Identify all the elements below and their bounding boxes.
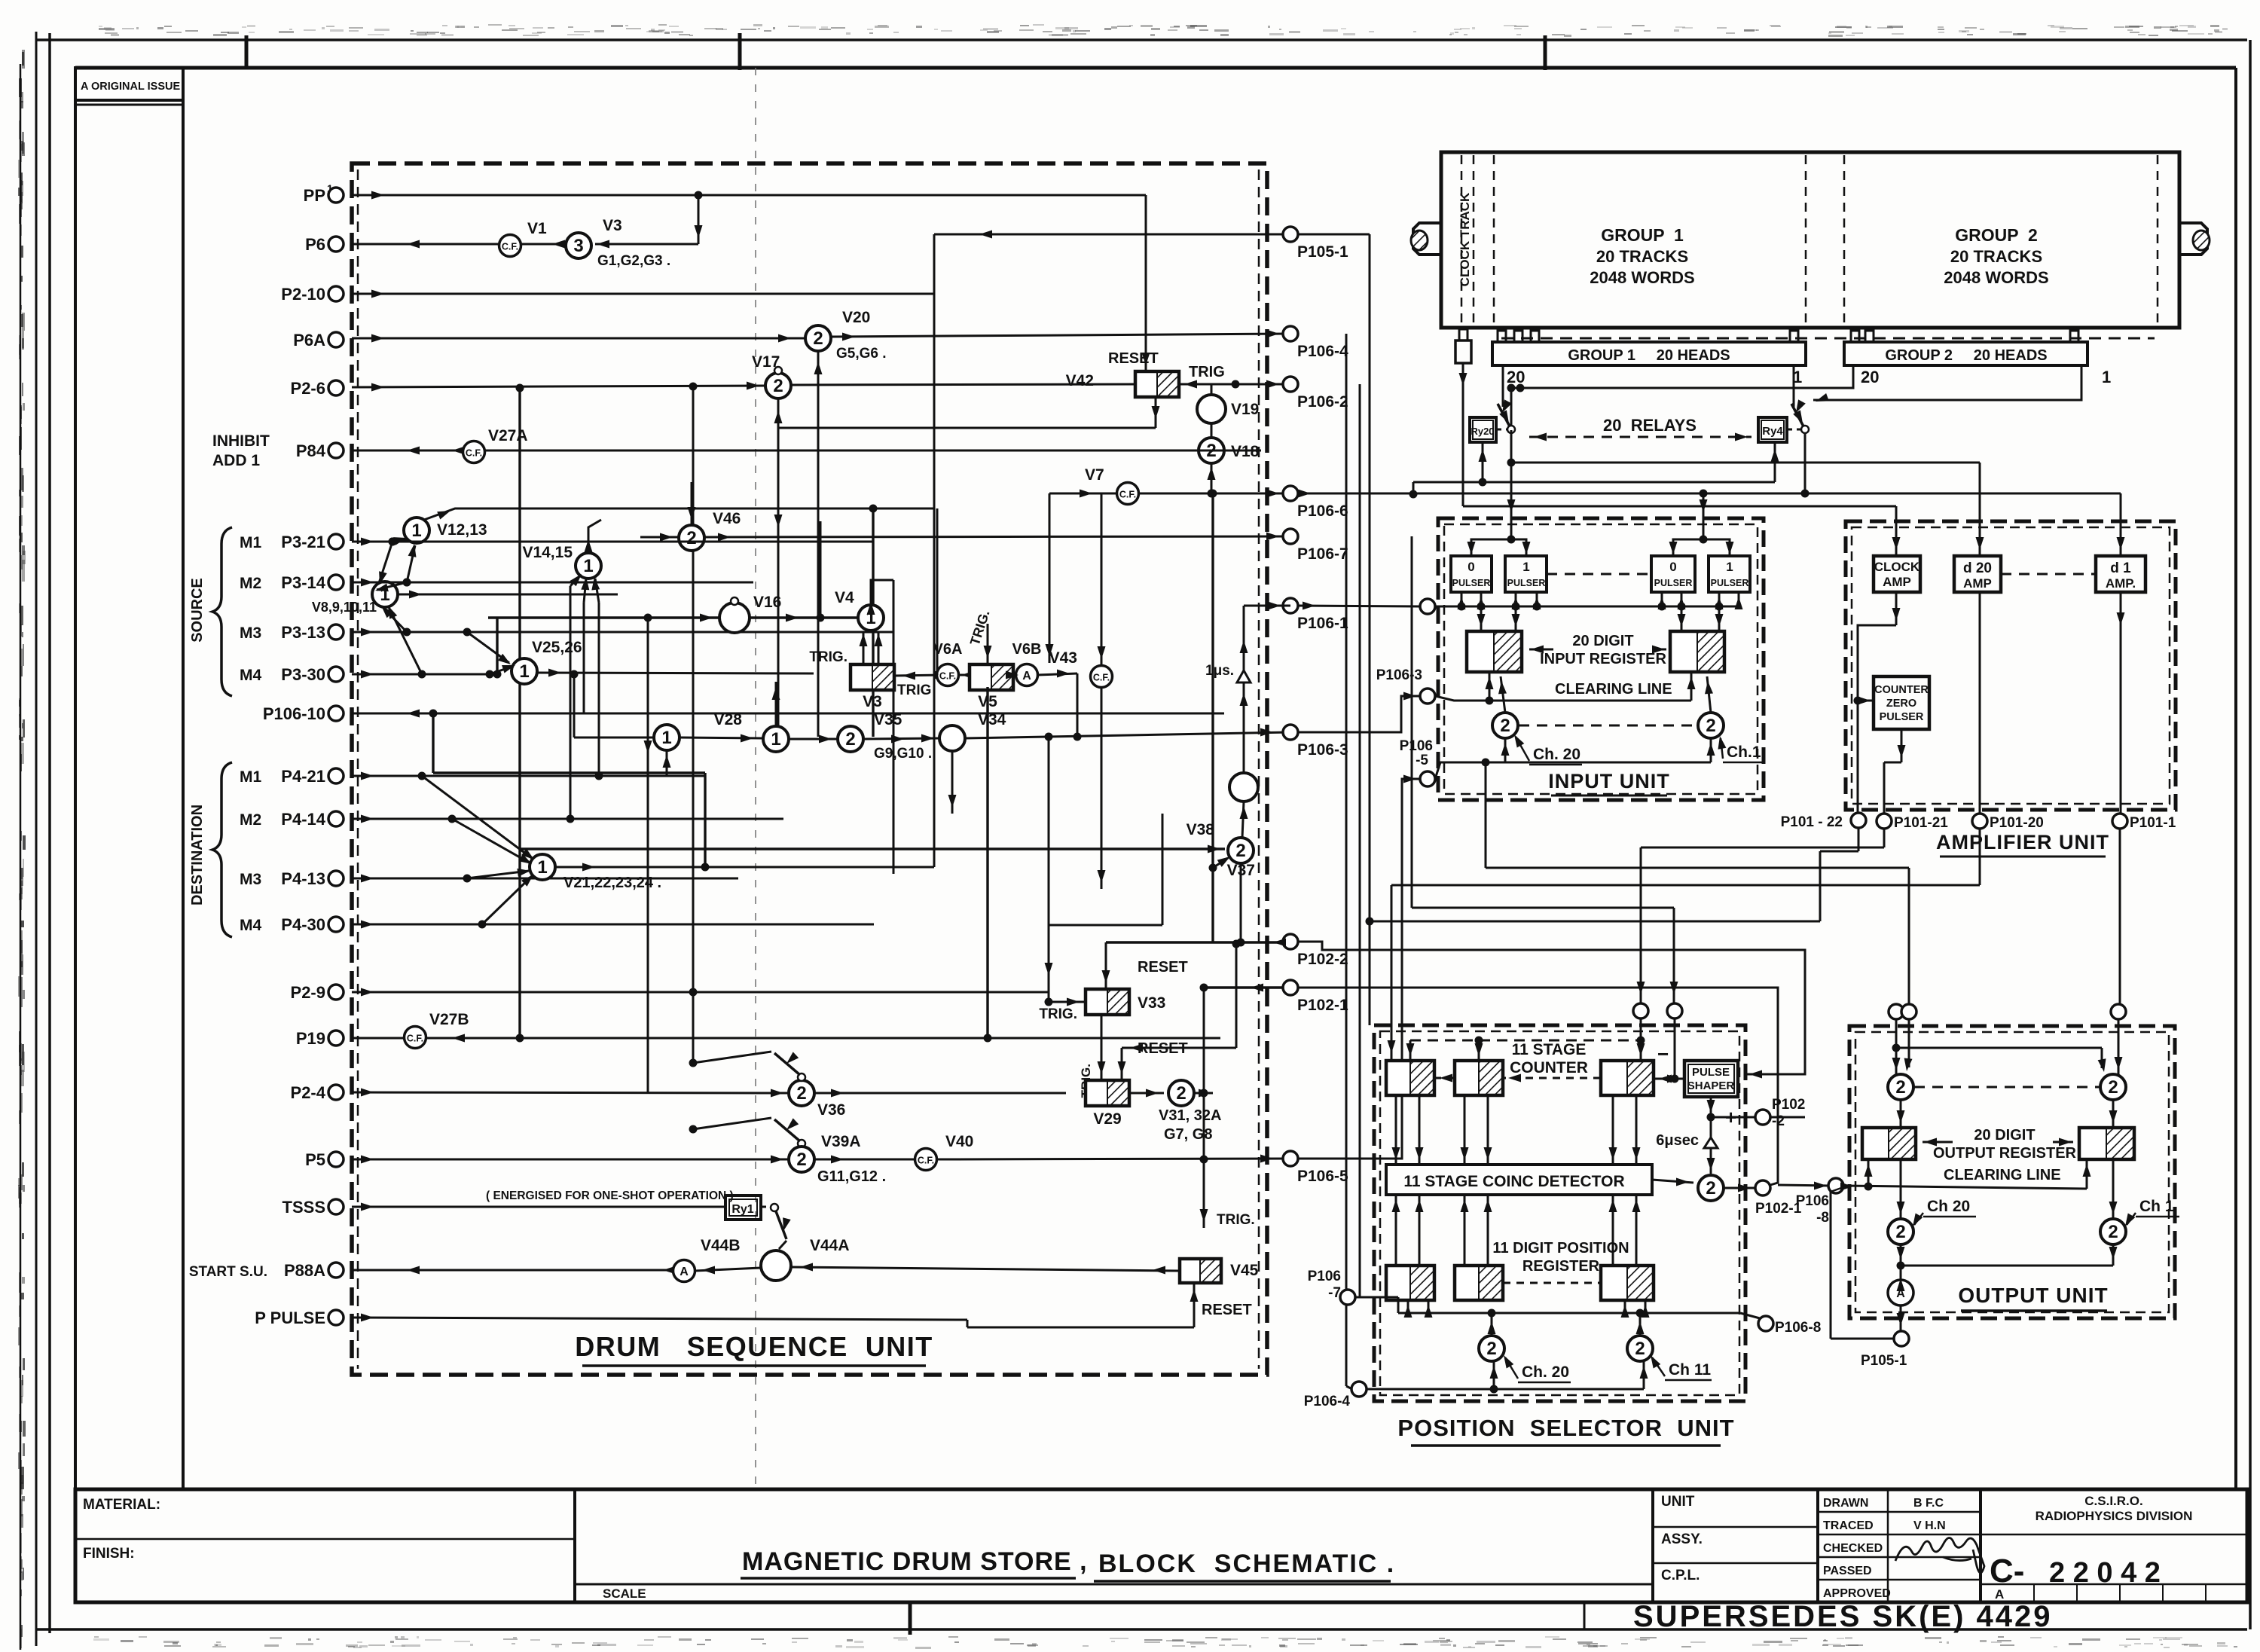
terminal P2-10 label [281, 285, 325, 304]
wire pulse shaper down [1707, 1097, 1737, 1128]
wire V46 out row P106-7 [704, 533, 1290, 542]
svg-text:20: 20 [1861, 368, 1879, 386]
wire pulser dashes [1547, 573, 1651, 576]
svg-text:2: 2 [1706, 1178, 1715, 1199]
wire P84 row [352, 447, 1261, 455]
delay 6usec triangle [1656, 1132, 1718, 1149]
wire counter chain dash a [1434, 1074, 1455, 1083]
source/dest channel label M1 y719 [240, 534, 261, 551]
label 20 g1 [1507, 368, 1525, 386]
wire PP row [352, 191, 1146, 200]
wire V6B out [1037, 670, 1077, 678]
wire d1 feed [2117, 493, 2125, 556]
switch relay2 lever [1791, 399, 1809, 433]
svg-text:V6B: V6B [1012, 641, 1042, 658]
svg-text:V29: V29 [1093, 1110, 1121, 1128]
svg-text:2048 WORDS: 2048 WORDS [1590, 268, 1694, 287]
wire V44B-V44A [695, 1266, 761, 1275]
svg-text:V35: V35 [874, 711, 902, 728]
label 11 stage counter [1510, 1041, 1588, 1076]
svg-text:Ch 11: Ch 11 [1669, 1361, 1711, 1379]
svg-text:PP: PP [304, 186, 325, 205]
drum right axle [2179, 223, 2210, 255]
wire P4-13 row [352, 875, 738, 883]
wire counter chain dash c [1654, 1075, 1684, 1083]
gate V12,13 (1) [404, 518, 487, 543]
svg-text:2: 2 [686, 528, 696, 548]
main title underline 2 [1094, 1580, 1391, 1583]
svg-text:V36: V36 [817, 1101, 845, 1119]
title passed label [1823, 1565, 1872, 1577]
svg-text:RADIOPHYSICS DIVISION: RADIOPHYSICS DIVISION [2036, 1509, 2193, 1523]
svg-text:P3-13: P3-13 [281, 623, 325, 642]
title finish label [83, 1546, 135, 1562]
terminal psu P106-4 [1304, 1382, 1367, 1409]
wire diag to V14 b [581, 577, 589, 603]
buffer V19 [1197, 395, 1259, 423]
gate V39A (2) [789, 1133, 886, 1185]
circle V44B [673, 1237, 741, 1282]
wire V33 to V29 [1079, 1015, 1106, 1098]
svg-text:COUNTER: COUNTER [1510, 1059, 1588, 1076]
svg-text:V38: V38 [1186, 821, 1215, 838]
svg-text:20 TRACKS: 20 TRACKS [1596, 247, 1688, 266]
wire V43 cf [1049, 649, 1113, 688]
svg-text:P2-4: P2-4 [291, 1083, 326, 1102]
svg-text:P102-2: P102-2 [1297, 951, 1348, 968]
wire counter feedback dash [1406, 1037, 1642, 1061]
svg-text:A ORIGINAL ISSUE: A ORIGINAL ISSUE [81, 81, 180, 93]
terminal P101-22 [1781, 813, 1866, 830]
svg-text:2: 2 [1235, 841, 1245, 861]
d20 amp box [1954, 556, 2001, 592]
wire x1089 riser [820, 521, 822, 618]
wire x762 riser [570, 670, 579, 738]
centering tick top 3 [1544, 35, 1547, 70]
wire reg feed arrows A [1477, 610, 1520, 631]
drum group2 text [1944, 225, 2048, 287]
svg-text:11 STAGE: 11 STAGE [1512, 1041, 1587, 1058]
terminal P84 circle [328, 443, 344, 458]
flipflop V33 [1039, 959, 1187, 1022]
svg-text:P3-21: P3-21 [281, 533, 325, 551]
inner frame top line [75, 66, 2236, 70]
ou top terminal 1 [1889, 1004, 1904, 1019]
output register FF left [1862, 1128, 1916, 1159]
terminal input P106-3 circle [1376, 667, 1435, 704]
terminal P3-21 circle [328, 534, 344, 549]
wire P4-14 row [352, 815, 783, 823]
centering tick top 2 [738, 33, 742, 70]
wire P3-21 row [352, 538, 874, 546]
input register FF left [1467, 631, 1522, 672]
svg-text:2: 2 [813, 328, 823, 349]
svg-text:MATERIAL:: MATERIAL: [83, 1497, 160, 1513]
main title text [742, 1547, 1395, 1578]
svg-text:Ry1: Ry1 [731, 1203, 753, 1216]
drum body [1441, 152, 2179, 328]
wire posreg chain dash [1503, 1282, 1601, 1284]
terminal P3-13 circle [328, 624, 344, 640]
label V42 trig [1189, 364, 1225, 380]
wire relay coil feed [1413, 444, 1779, 487]
svg-text:2: 2 [1706, 716, 1715, 736]
svg-text:11 STAGE COINC DETECTOR: 11 STAGE COINC DETECTOR [1403, 1173, 1624, 1190]
outer border right line [2249, 40, 2252, 1629]
gate V17 (2) [752, 353, 791, 398]
svg-text:AMP: AMP [1883, 575, 1911, 589]
label 20 digit input register [1540, 633, 1666, 667]
terminal P106-7 (DSU) label [1297, 545, 1348, 563]
terminal PP1 label [304, 182, 333, 205]
svg-text:Ry4: Ry4 [1762, 425, 1783, 438]
gate V14,15 (1) [522, 544, 601, 579]
drum sequence unit label [575, 1331, 933, 1362]
gate ou left (2) [1888, 1074, 1913, 1100]
label V42 reset [1108, 350, 1159, 367]
svg-text:P102-1: P102-1 [1297, 997, 1348, 1014]
svg-text:M3: M3 [240, 624, 261, 642]
wire V14 feed col b [583, 603, 585, 713]
svg-text:P106-1: P106-1 [1297, 615, 1348, 632]
svg-text:P2-6: P2-6 [291, 379, 325, 398]
svg-text:P101-21: P101-21 [1894, 815, 1948, 831]
wire V29 reset [1118, 940, 1241, 1081]
terminal TSSS label [282, 1198, 325, 1217]
wire V35 up feed [850, 752, 851, 783]
terminal P PULSE circle [328, 1310, 344, 1325]
terminal P101-20 [1972, 814, 2044, 831]
svg-text:AMP.: AMP. [2106, 576, 2136, 591]
source/dest channel label M2 y773 [240, 575, 261, 592]
title material/finish divider [75, 1538, 575, 1541]
terminal P106-10 circle [328, 706, 344, 721]
wire P105-1 left link [1831, 1192, 1895, 1339]
svg-text:1: 1 [519, 661, 529, 682]
wire V42 down [778, 398, 1160, 428]
svg-text:0: 0 [1669, 560, 1676, 574]
label energised [486, 1189, 734, 1202]
terminal P3-30 circle [328, 667, 344, 682]
terminal P105-1 (DSU) circle [1283, 227, 1298, 242]
svg-text:P2-9: P2-9 [291, 983, 325, 1002]
svg-text:20: 20 [1507, 368, 1525, 386]
wire V34 drop [948, 751, 957, 814]
wire czp down [1857, 701, 1859, 812]
svg-text:M1: M1 [240, 534, 261, 551]
wire V14,15 out up [585, 520, 602, 553]
svg-text:P2-10: P2-10 [281, 285, 325, 304]
terminal P4-14 circle [328, 811, 344, 826]
position selector label [1397, 1415, 1734, 1446]
svg-text:P106-2: P106-2 [1297, 393, 1348, 411]
wire Ry4 dash [1787, 429, 1800, 431]
svg-text:TRACED: TRACED [1823, 1519, 1874, 1532]
terminal P101-1 [2112, 814, 2176, 831]
svg-text:TRIG.: TRIG. [809, 649, 847, 665]
terminal P19 label [296, 1029, 325, 1048]
svg-text:CHECKED: CHECKED [1823, 1542, 1883, 1555]
terminal P106-10 label [263, 704, 325, 723]
wire P102-2 row inner [1273, 939, 1286, 947]
svg-text:P106-5: P106-5 [1297, 1168, 1348, 1185]
wire x1033 trunk [774, 398, 783, 737]
relay Ry20 [1470, 417, 1496, 442]
svg-text:P106-3: P106-3 [1297, 741, 1348, 759]
wire diag P3-21 to V12 [389, 537, 410, 545]
terminal P106-1 (DSU) circle [1283, 598, 1298, 613]
wire V44A in [791, 1263, 1180, 1275]
wire row978 b [680, 734, 763, 743]
flipflop V45 [1180, 1259, 1259, 1283]
switch V39A lever [689, 1118, 806, 1147]
supersedes strip left tick [1584, 1602, 1586, 1629]
gate Ch20 input (2) [1492, 713, 1518, 738]
terminal P106-6 (DSU) label [1297, 502, 1348, 520]
svg-text:V45: V45 [1230, 1262, 1259, 1279]
terminal P106-1 (DSU) label [1297, 615, 1348, 632]
svg-text:SUPERSEDES SK(E) 4429: SUPERSEDES SK(E) 4429 [1633, 1600, 2053, 1633]
title checked label [1823, 1542, 1883, 1555]
wire ff row segs [893, 671, 943, 680]
wire ppulse to v45 reset [967, 1283, 1252, 1327]
title unit box divider [1651, 1489, 1654, 1602]
wire input bottom bus [1435, 738, 1715, 779]
source/dest channel label M4 y895 [240, 667, 261, 684]
svg-text:CLOCK TRACK: CLOCK TRACK [1458, 192, 1472, 286]
wire lever1 into input unit [1507, 463, 1516, 536]
wire g2-20 jog [1507, 365, 1854, 426]
svg-text:DESTINATION: DESTINATION [189, 805, 206, 905]
svg-text:DRUM SEQUENCE UNIT: DRUM SEQUENCE UNIT [575, 1331, 933, 1362]
svg-text:11 DIGIT POSITION: 11 DIGIT POSITION [1492, 1240, 1629, 1257]
wire diag to V14 a [570, 574, 582, 586]
title scale label [603, 1586, 646, 1601]
wire bundle x1787 line [1346, 334, 1352, 1389]
terminal P84 label [296, 441, 326, 460]
output unit label [1958, 1284, 2108, 1311]
wire d20 bus [1511, 463, 1984, 556]
wire g2-1 jog [1813, 365, 2081, 402]
svg-text:GROUP 1 20 HEADS: GROUP 1 20 HEADS [1568, 347, 1730, 364]
svg-text:Ch.1: Ch.1 [1727, 744, 1761, 761]
wire V39A out [814, 1156, 915, 1164]
svg-text:TRIG: TRIG [897, 682, 931, 698]
svg-text:1: 1 [537, 857, 547, 878]
terminal P106-2 (DSU) label [1297, 393, 1348, 411]
svg-text:P106-4: P106-4 [1297, 343, 1348, 360]
wire V46 in [640, 533, 679, 542]
svg-text:RESET: RESET [1108, 350, 1159, 367]
arrow into right oreg [2053, 1138, 2073, 1147]
wire V33 reset drop [1102, 939, 1291, 990]
wire P106-6 row [1049, 490, 1290, 498]
svg-text:d 1: d 1 [2110, 560, 2131, 576]
switch V36 lever [689, 1052, 806, 1081]
wire P4-30 row [352, 921, 874, 929]
title number bottom divider [1981, 1583, 2247, 1586]
ou top terminal 3 [2111, 1004, 2126, 1019]
title material label [83, 1497, 160, 1513]
terminal P4-13 circle [328, 871, 344, 886]
wire P4-21 row [352, 772, 704, 780]
label clearing line input [1555, 681, 1672, 698]
wire diag to V25 a [463, 628, 512, 665]
wire diag P3-21 to V8 [379, 538, 397, 585]
input register FF right [1670, 631, 1724, 672]
gate V18 (2) [1199, 438, 1260, 463]
svg-text:P106-4: P106-4 [1304, 1394, 1351, 1409]
gate V21-24 (1) [530, 854, 661, 891]
gate psu out (2) [1698, 1175, 1724, 1201]
pulser 0 box B [1651, 556, 1695, 592]
wire diag P3-14 to V12 [403, 544, 417, 587]
wire d1 out [2117, 592, 2125, 814]
wire x1598 trunk [1200, 984, 1291, 1229]
wire V20 drop x1086 [814, 351, 823, 737]
wire V20 out row P106-4 [831, 330, 1290, 341]
svg-text:TRIG: TRIG [1189, 364, 1225, 380]
svg-text:REGISTER: REGISTER [1522, 1258, 1600, 1275]
wire reg feed A [1481, 606, 1516, 631]
title drawn label [1823, 1497, 1868, 1510]
svg-text:P106-10: P106-10 [263, 704, 325, 723]
buffer V34 [939, 711, 1006, 751]
gate V35 (2) [838, 711, 932, 762]
svg-text:P88A: P88A [284, 1261, 325, 1280]
title csiro divider [1981, 1534, 2247, 1536]
gate ou right (2) [2100, 1074, 2126, 1100]
label clearing line output [1944, 1167, 2061, 1183]
cathode follower V6A [933, 641, 974, 686]
wire clock bus [1463, 506, 1901, 556]
wire V14 feed col a [567, 586, 575, 823]
terminal P3-13 label [281, 623, 325, 642]
svg-text:C.F.: C.F. [502, 242, 518, 252]
gate V3 (3) [566, 217, 670, 269]
svg-text:P102: P102 [1772, 1097, 1805, 1113]
outer border top line [36, 38, 2247, 41]
wire x1393 trunk [1046, 493, 1054, 663]
buffer V38 [1186, 773, 1258, 838]
title unit label [1661, 1494, 1695, 1510]
wire P5 row [352, 1156, 789, 1164]
svg-text:P4-21: P4-21 [281, 767, 325, 786]
wire V38 chain [1240, 606, 1248, 773]
label minus [1657, 1043, 1669, 1065]
svg-text:TRIG.: TRIG. [1039, 1006, 1077, 1022]
wire ou t1 drop [1892, 1019, 1901, 1074]
title rev ticks [2034, 1584, 2206, 1602]
revision box A ORIGINAL ISSUE [75, 68, 183, 105]
title checked signature [1895, 1538, 1984, 1574]
svg-text:2: 2 [2108, 1222, 2118, 1242]
wire lever2 drop [1804, 433, 1806, 493]
svg-text:M2: M2 [240, 575, 261, 592]
wire P6 row [352, 240, 566, 249]
counter FF1 [1386, 1061, 1434, 1095]
cathode follower V27B [405, 1011, 469, 1049]
output unit dashed box [1849, 1026, 2175, 1318]
label 20 digit output register [1933, 1127, 2077, 1162]
wire V46 top feed [688, 482, 696, 525]
svg-text:V42: V42 [1066, 372, 1094, 389]
amplifier unit dashed box [1846, 521, 2176, 810]
wire V36 out [814, 1089, 1066, 1098]
wire V37 diag in [1209, 490, 1231, 942]
svg-text:SOURCE: SOURCE [189, 578, 206, 643]
svg-text:G9,G10 .: G9,G10 . [874, 746, 932, 762]
position reg FF3 [1601, 1266, 1654, 1300]
svg-text:Ch. 20: Ch. 20 [1533, 746, 1580, 763]
svg-text:1: 1 [661, 728, 671, 748]
wire V6A to V5 [958, 674, 970, 676]
wire P106-5 link [1298, 775, 1420, 1159]
wire P106-1 stub [1244, 602, 1290, 610]
terminal P105-1 (DSU) label [1297, 243, 1348, 261]
wire P106-6 bus [1298, 490, 2121, 498]
wire V28 up feed [772, 682, 780, 726]
fold line vertical [755, 68, 756, 1489]
svg-text:B F.C: B F.C [1913, 1497, 1944, 1510]
label Ch1 input [1718, 736, 1764, 762]
title csiro text [2036, 1494, 2193, 1523]
svg-text:V1: V1 [527, 220, 547, 237]
svg-text:20 TRACKS: 20 TRACKS [1950, 247, 2042, 266]
terminal P106-4 (DSU) circle [1283, 326, 1298, 341]
terminal input P106-5 circle [1400, 738, 1435, 786]
wire V4 legs [860, 632, 883, 664]
svg-text:P101-20: P101-20 [1990, 815, 2044, 831]
position reg FF1 [1386, 1266, 1434, 1300]
wire y1026 link [429, 710, 710, 872]
terminal psu P102-1 [1755, 1180, 1802, 1217]
wire psu gate out [1724, 1184, 1755, 1192]
svg-text:A: A [1022, 670, 1031, 682]
drum sequence unit dashed box [352, 163, 1267, 1375]
heads dashed line [1501, 337, 2155, 340]
svg-text:OUTPUT REGISTER: OUTPUT REGISTER [1933, 1145, 2077, 1162]
wire PP to V3 drop [595, 195, 703, 249]
label Ch1 output [2125, 1198, 2179, 1226]
wire psu bottom feed [1367, 1361, 1648, 1394]
label 20 relays [1603, 416, 1697, 435]
svg-text:d 20: d 20 [1963, 560, 1992, 576]
buffer V44A [761, 1237, 850, 1281]
title scale line [575, 1583, 1653, 1586]
gate V46 (2) [679, 510, 741, 551]
wire P105-1 riser [1369, 234, 1371, 1025]
label Ch20 psu [1504, 1355, 1571, 1382]
cathode follower V27A [463, 427, 528, 463]
wire P106-10 row [352, 710, 1224, 718]
svg-text:P3-30: P3-30 [281, 665, 325, 684]
svg-text:V14,15: V14,15 [522, 544, 573, 561]
terminal PP circle [328, 188, 344, 203]
position reg FF2 [1455, 1266, 1503, 1300]
flipflop V42 [1066, 371, 1179, 397]
counter FF2 [1455, 1061, 1503, 1095]
wire P2-6 row [352, 382, 765, 392]
wire czp out [1884, 729, 1906, 814]
wire lever1 drop [1507, 430, 1516, 467]
wire ou t3 drop [2115, 1019, 2123, 1074]
svg-text:GROUP 2: GROUP 2 [1955, 225, 2038, 245]
svg-text:P106-3: P106-3 [1376, 667, 1422, 683]
svg-text:2: 2 [845, 729, 855, 750]
title cpl label [1661, 1568, 1700, 1583]
svg-text:V21,22,23,24 .: V21,22,23,24 . [563, 875, 661, 891]
